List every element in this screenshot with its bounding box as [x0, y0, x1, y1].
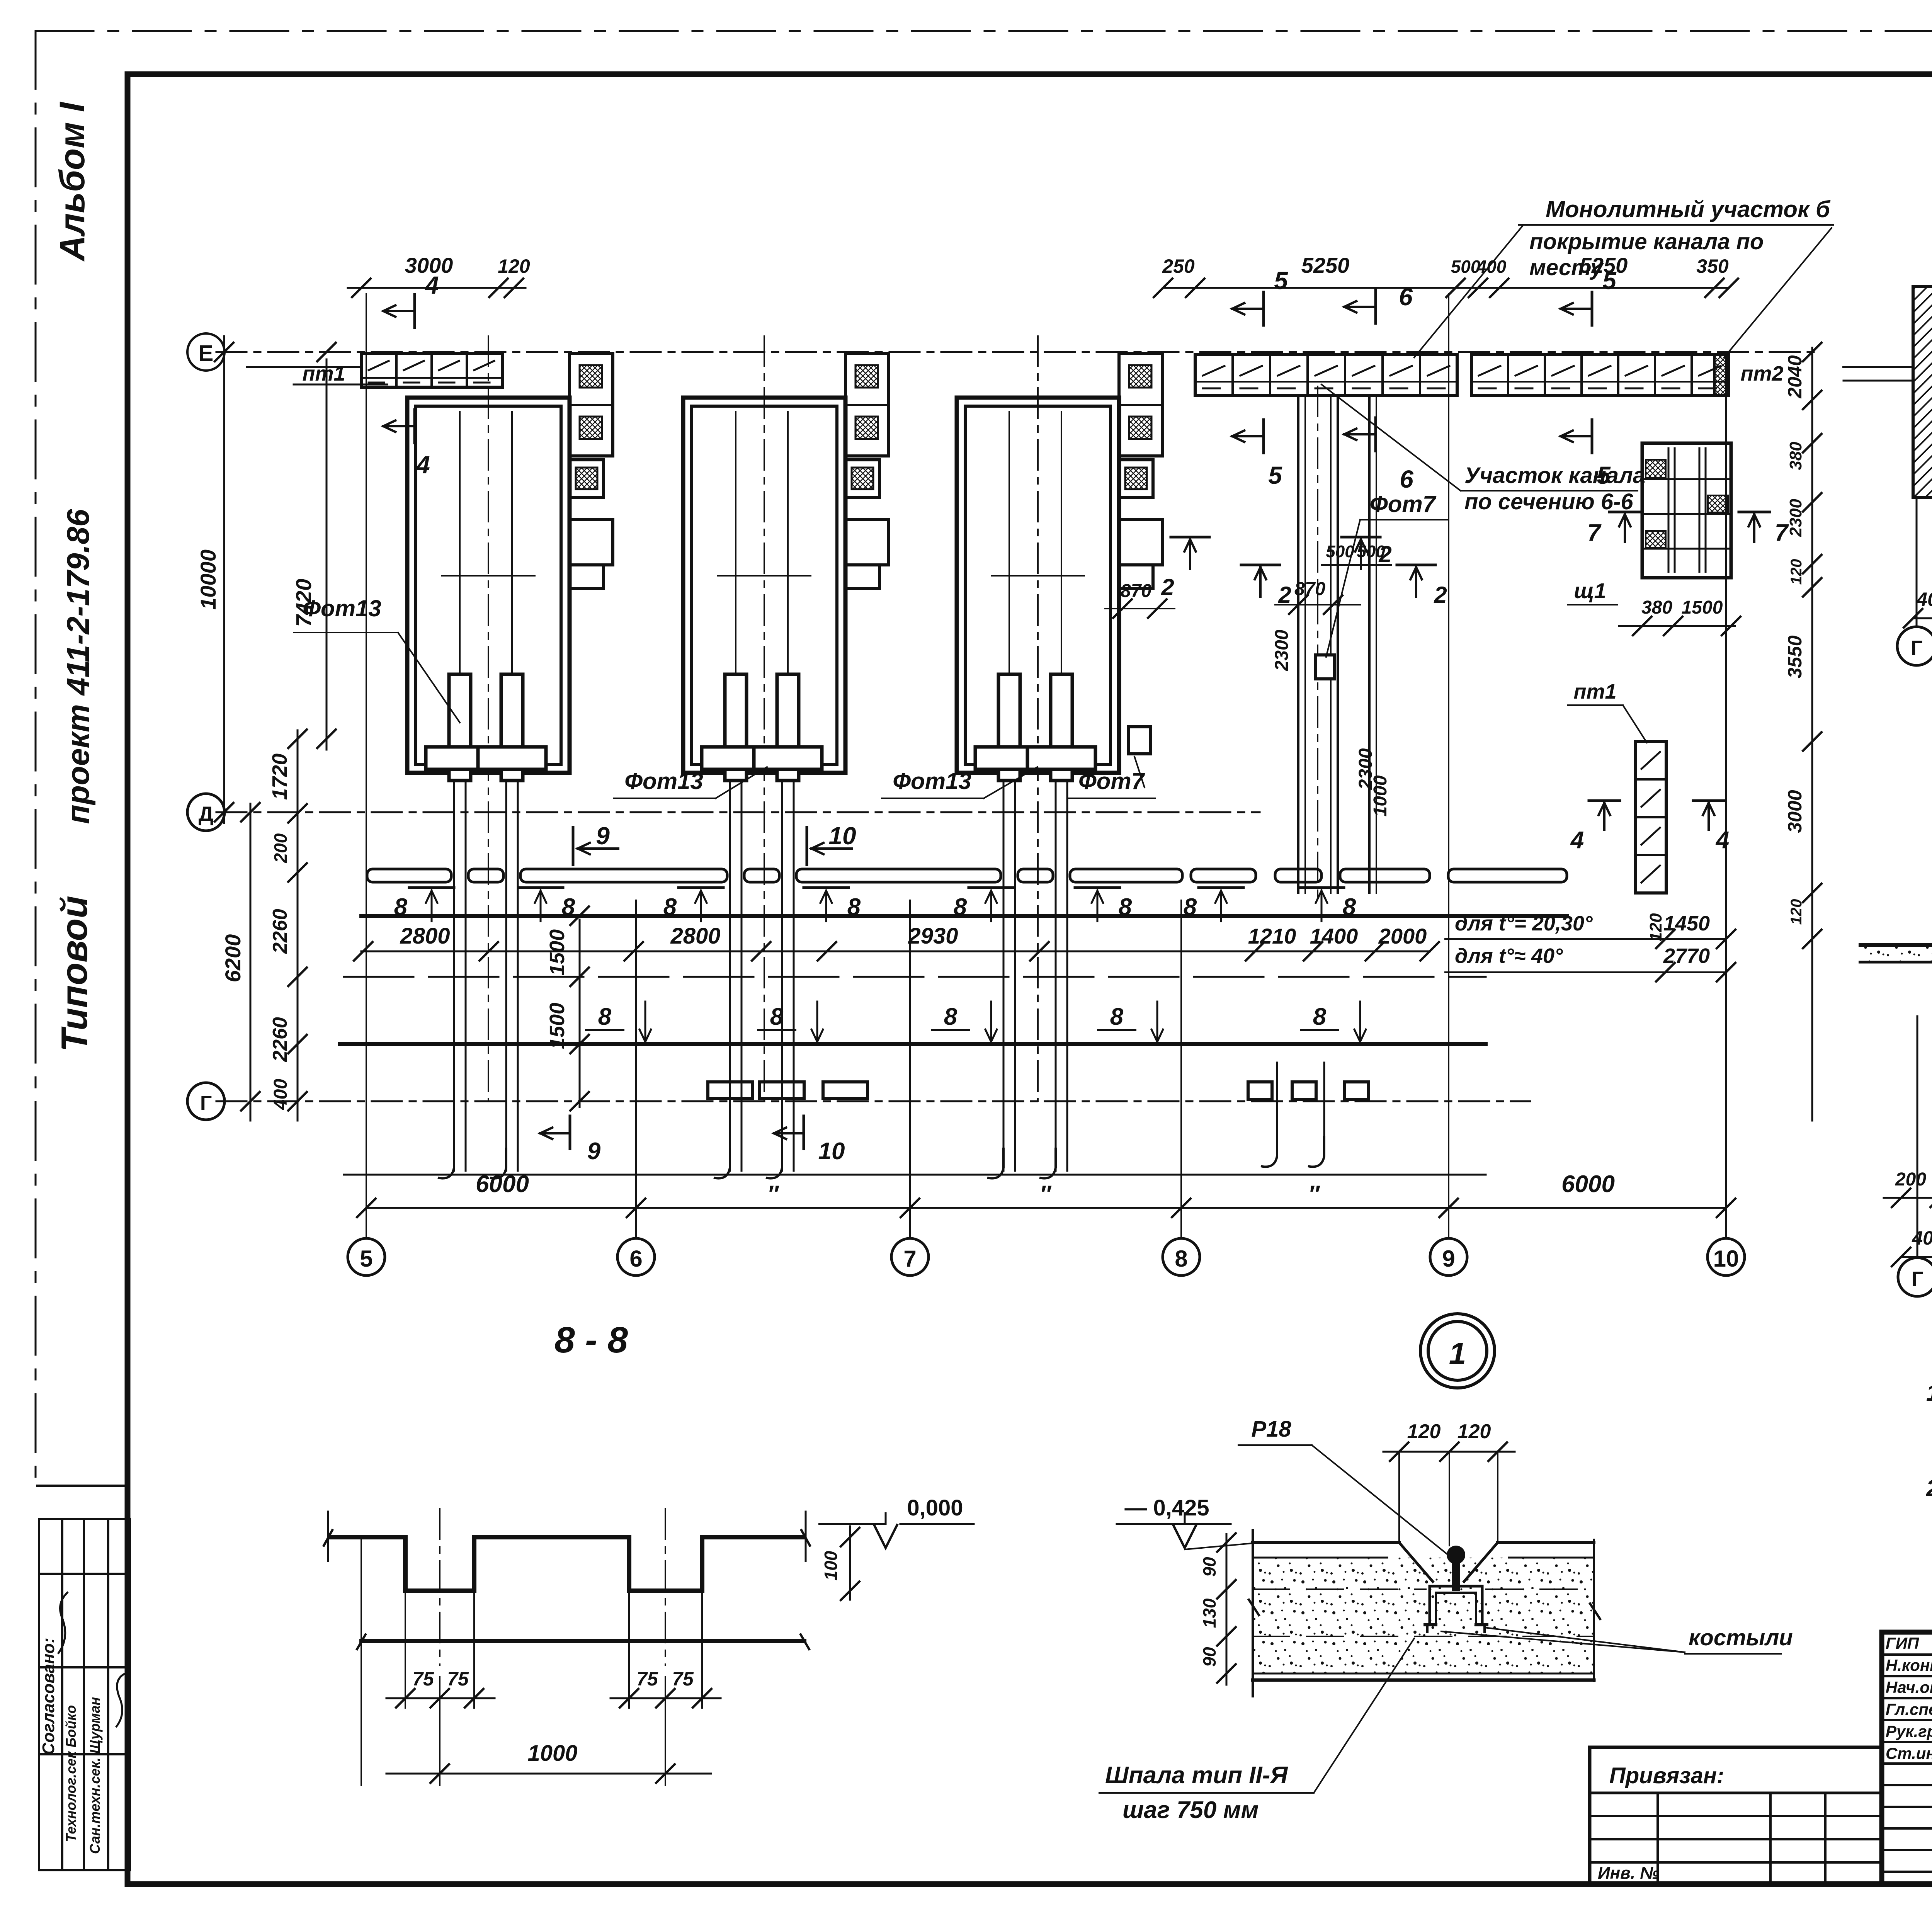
svg-text:8: 8: [1184, 894, 1197, 920]
svg-text:9: 9: [1442, 1246, 1455, 1272]
section mark 4 (top): [413, 294, 416, 328]
8-8 castellated profile: [328, 1537, 806, 1591]
svg-text:870: 870: [1121, 581, 1151, 601]
svg-text:8: 8: [1175, 1246, 1187, 1272]
svg-text:5: 5: [1602, 267, 1617, 294]
svg-text:90: 90: [1199, 1647, 1219, 1667]
svg-text:120: 120: [1458, 1420, 1491, 1443]
svg-text:Технолог.сек Бойко: Технолог.сек Бойко: [63, 1705, 79, 1842]
svg-text:Д: Д: [199, 803, 213, 826]
10-10 tub body: [1859, 945, 1932, 1015]
svg-text:500: 500: [1326, 542, 1354, 561]
axis Г line: [216, 1100, 1530, 1102]
right vertical dim chain: [1811, 348, 1813, 947]
svg-text:8: 8: [1313, 1003, 1327, 1030]
section marks 7: [1609, 511, 1640, 514]
section marks 4 at PT1 stack: [1589, 799, 1620, 802]
svg-text:8: 8: [1343, 894, 1356, 920]
привязан table: [1590, 1746, 1882, 1749]
svg-text:2300: 2300: [1272, 629, 1292, 671]
svg-text:380: 380: [1786, 442, 1805, 470]
drying chamber foundation at x=2476: [957, 398, 1119, 773]
svg-text:Сан.техн.сек. Щурман: Сан.техн.сек. Щурман: [87, 1697, 103, 1854]
svg-text:100: 100: [821, 1551, 841, 1580]
svg-text:8: 8: [1119, 894, 1132, 920]
foundation foot Фот13: [449, 674, 471, 781]
svg-text:для t°≈ 40°: для t°≈ 40°: [1455, 944, 1563, 968]
detail rail anchor Р18: [1447, 1546, 1465, 1564]
svg-text:2. Общие примечания ст: 2. Общие примечания ст. лист кж-14 .: [1926, 1475, 1932, 1501]
svg-text:5: 5: [1268, 461, 1282, 489]
svg-text:щ1: щ1: [1574, 578, 1606, 603]
section marks 5: [1262, 292, 1265, 325]
svg-text:5: 5: [1274, 267, 1288, 294]
axis E line: [216, 351, 1816, 353]
svg-text:1. Настоящий лист расст: 1. Настоящий лист расстатривать совместн…: [1926, 1380, 1932, 1406]
section marks 9/10 upper: [572, 827, 575, 865]
svg-text:Монолитный участок б: Монолитный участок б: [1546, 196, 1831, 222]
lower thin line: [344, 1174, 1486, 1176]
svg-text:9: 9: [596, 822, 610, 850]
svg-text:1500: 1500: [546, 1003, 569, 1049]
svg-text:Рук.гр.: Рук.гр.: [1886, 1722, 1932, 1740]
svg-text:″: ″: [1308, 1181, 1320, 1207]
svg-text:2800: 2800: [670, 923, 720, 949]
svg-text:500: 500: [1357, 542, 1385, 561]
svg-text:10000: 10000: [196, 549, 220, 610]
svg-text:Инв. №: Инв. №: [1598, 1864, 1660, 1883]
svg-text:2260: 2260: [269, 909, 291, 954]
foundation foot Фот13: [998, 674, 1020, 781]
svg-text:120: 120: [1788, 899, 1805, 925]
svg-text:8: 8: [954, 894, 967, 920]
svg-text:3550: 3550: [1784, 635, 1806, 678]
svg-text:200: 200: [270, 833, 291, 863]
svg-text:4: 4: [1570, 827, 1584, 854]
9-9 dims 400/2260/2260/200: [1913, 617, 1932, 619]
svg-text:1500: 1500: [1682, 597, 1723, 618]
svg-text:2: 2: [1278, 582, 1291, 608]
svg-text:10: 10: [828, 822, 856, 850]
svg-text:1500: 1500: [546, 929, 569, 976]
svg-text:Ст.инж.: Ст.инж.: [1886, 1744, 1932, 1762]
svg-text:2800: 2800: [400, 923, 450, 949]
canal wall vertical lines: [1297, 395, 1299, 893]
svg-text:пт1: пт1: [1573, 680, 1616, 703]
svg-text:400: 400: [1912, 1227, 1932, 1249]
8-8 dim 100: [849, 1526, 851, 1600]
svg-text:Фот7: Фот7: [1370, 491, 1437, 517]
svg-text:″: ″: [1040, 1181, 1052, 1207]
foundation foot Фот13: [777, 674, 799, 781]
canal edge continuous line: [361, 914, 1567, 918]
svg-text:7: 7: [1587, 520, 1602, 546]
Фот7 labels and anchors: [1128, 727, 1151, 754]
svg-text:350: 350: [1696, 255, 1729, 277]
9-9 wall hatched: [1913, 287, 1932, 498]
svg-text:250: 250: [1162, 255, 1195, 277]
top dimension row: [348, 287, 526, 289]
section marks 6: [1374, 290, 1377, 323]
svg-text:Г: Г: [1911, 636, 1923, 660]
9-9 axis Г circle: [1916, 498, 1918, 627]
svg-text:0,000: 0,000: [907, 1495, 963, 1520]
detail bubble 1: [1420, 1314, 1495, 1388]
vertical dim 1500/1500: [579, 920, 581, 1107]
10-10 dims 200/200/2260/2260/200: [1884, 1197, 1932, 1199]
strip row (middle): [1195, 354, 1457, 395]
axis Г circle: [187, 1083, 224, 1120]
svg-text:1: 1: [1449, 1336, 1466, 1371]
title block outer: [1882, 1632, 1932, 1884]
pads below lower canal line: [708, 1082, 752, 1099]
svg-text:6: 6: [629, 1246, 642, 1272]
shield block щ1: [1642, 443, 1731, 578]
svg-text:4: 4: [415, 451, 430, 479]
svg-text:1000: 1000: [1370, 775, 1391, 816]
svg-text:2: 2: [1434, 582, 1447, 608]
svg-text:Г: Г: [1912, 1267, 1923, 1291]
svg-text:— 0,425: — 0,425: [1124, 1495, 1209, 1520]
8-8 dim 1000: [386, 1773, 711, 1775]
svg-text:Типовой: Типовой: [54, 896, 95, 1052]
svg-text:8: 8: [394, 894, 408, 920]
hatched wall plates right of chamber: [1119, 354, 1162, 456]
dim 380/1500 under щ1: [1619, 625, 1735, 627]
svg-text:5: 5: [1597, 461, 1611, 489]
svg-text:5250: 5250: [1301, 253, 1350, 277]
svg-text:Гл.спец.: Гл.спец.: [1886, 1700, 1932, 1718]
strip PT1 plan (left): [361, 354, 502, 387]
signature table: [1882, 1653, 1932, 1656]
svg-text:для t°= 20,30°: для t°= 20,30°: [1455, 912, 1593, 935]
svg-text:8 - 8: 8 - 8: [554, 1320, 628, 1361]
svg-text:120: 120: [498, 255, 530, 277]
foundation foot Фот13: [1051, 674, 1072, 781]
svg-text:3000: 3000: [1784, 790, 1806, 833]
precast plates row (plan): [367, 869, 451, 882]
svg-text:1210: 1210: [1248, 924, 1296, 948]
svg-text:200: 200: [1895, 1169, 1926, 1190]
outer thin border: [36, 30, 1932, 32]
bottom-left approval table: [37, 1485, 128, 1487]
bottom axis dimension line 6000: [366, 1207, 1726, 1209]
svg-text:2040: 2040: [1784, 355, 1806, 398]
svg-text:1400: 1400: [1310, 924, 1358, 948]
svg-text:Нач.отд: Нач.отд: [1886, 1678, 1932, 1696]
8-8 dims 75 75: [386, 1697, 495, 1699]
svg-text:5: 5: [360, 1246, 372, 1272]
svg-text:4: 4: [1715, 827, 1729, 854]
svg-text:пт1: пт1: [302, 362, 345, 385]
svg-text:6000: 6000: [1561, 1171, 1615, 1197]
svg-text:2000: 2000: [1378, 924, 1427, 948]
10-10 dims 400/4520: [1901, 1256, 1932, 1258]
svg-text:10: 10: [1713, 1246, 1739, 1272]
svg-text:400: 400: [270, 1079, 291, 1110]
axis E circle: [187, 333, 224, 371]
drying chamber foundation at x=1054: [407, 398, 570, 773]
detail left dims 90/130/90: [1226, 1534, 1228, 1685]
svg-text:400: 400: [1916, 588, 1932, 610]
axis Д line: [216, 811, 1260, 813]
svg-text:500: 500: [1451, 257, 1481, 277]
8-8 verticals to dims: [439, 1509, 440, 1665]
svg-text:2: 2: [1161, 574, 1174, 600]
section marks 2: [1171, 536, 1209, 539]
axis circles 5..10: [348, 1238, 385, 1276]
svg-text:120: 120: [1407, 1420, 1441, 1443]
svg-text:Привязан:: Привязан:: [1609, 1763, 1724, 1788]
lower canal edge line: [340, 1042, 1486, 1046]
svg-text:шаг 750 мм: шаг 750 мм: [1122, 1797, 1259, 1823]
svg-text:10: 10: [818, 1138, 845, 1165]
drying chamber foundation at x=1768: [683, 398, 845, 773]
detail dash lines: [1253, 1588, 1426, 1590]
svg-text:75: 75: [636, 1668, 658, 1690]
svg-text:2300: 2300: [1786, 499, 1805, 537]
svg-text:8: 8: [847, 894, 861, 920]
vertical grid axes 5..10: [366, 294, 367, 1238]
axis Д circle: [187, 794, 224, 831]
svg-text:пт2: пт2: [1740, 362, 1783, 385]
strip row (right) with monolith end: [1471, 354, 1729, 395]
svg-text:6: 6: [1399, 283, 1413, 311]
svg-text:120: 120: [1646, 913, 1665, 942]
svg-text:Фот13: Фот13: [893, 768, 971, 794]
svg-text:380: 380: [1641, 597, 1672, 618]
svg-text:проект 411-2-179.86: проект 411-2-179.86: [61, 509, 96, 824]
svg-text:75: 75: [412, 1668, 434, 1690]
svg-text:Шпала тип II-Я: Шпала тип II-Я: [1105, 1762, 1288, 1789]
svg-text:Е: Е: [199, 341, 214, 366]
left vertical dimension chains: [223, 336, 225, 823]
svg-text:6: 6: [1400, 465, 1413, 493]
svg-text:9: 9: [587, 1138, 601, 1165]
section mark 4 (below strip): [413, 410, 416, 443]
section marks 9/10 lower: [569, 1116, 571, 1149]
svg-text:Фот13: Фот13: [624, 768, 703, 794]
10-10 axis Г circle: [1917, 1016, 1918, 1258]
svg-text:Согласовано:: Согласовано:: [39, 1638, 58, 1755]
svg-text:″: ″: [767, 1181, 779, 1207]
svg-text:6200: 6200: [221, 934, 245, 983]
svg-text:1720: 1720: [268, 753, 291, 800]
svg-text:75: 75: [672, 1668, 694, 1690]
svg-text:8: 8: [944, 1003, 957, 1030]
svg-text:Р18: Р18: [1251, 1417, 1291, 1442]
detail dims 120 120: [1383, 1451, 1515, 1453]
svg-text:8: 8: [663, 894, 677, 920]
svg-text:1450: 1450: [1663, 912, 1710, 935]
svg-text:90: 90: [1199, 1557, 1219, 1577]
foundation foot Фот13: [725, 674, 747, 781]
svg-text:по сечению 6-6: по сечению 6-6: [1464, 489, 1633, 514]
PT1 plate stack (plan right): [1635, 742, 1666, 893]
hooked dowels right: [1261, 1136, 1277, 1167]
foundation foot Фот13: [501, 674, 523, 781]
detail slab: [1253, 1558, 1594, 1673]
svg-text:870: 870: [1294, 579, 1325, 599]
svg-text:4: 4: [424, 271, 439, 299]
detail channel box with spikes: [1430, 1585, 1482, 1588]
svg-text:8: 8: [770, 1003, 784, 1030]
dimension row 2800/2800/2930/1210/1400/2000: [361, 951, 1430, 952]
svg-text:2770: 2770: [1663, 944, 1710, 968]
svg-text:2930: 2930: [908, 923, 958, 949]
svg-text:75: 75: [447, 1668, 469, 1690]
hatched wall plates right of chamber: [845, 354, 889, 456]
svg-text:8: 8: [1110, 1003, 1124, 1030]
canal upper edge dashed line: [344, 976, 1486, 978]
svg-text:Фот13: Фот13: [303, 595, 381, 621]
svg-text:костыли: костыли: [1689, 1625, 1793, 1650]
svg-text:130: 130: [1199, 1598, 1219, 1628]
svg-text:400: 400: [1476, 257, 1507, 277]
svg-text:8: 8: [562, 894, 575, 920]
svg-text:ГИП: ГИП: [1886, 1634, 1919, 1652]
svg-text:7: 7: [903, 1246, 916, 1272]
hatched wall plates right of chamber: [570, 354, 613, 456]
svg-text:Н.контр: Н.контр: [1886, 1656, 1932, 1674]
svg-text:Альбом I: Альбом I: [53, 101, 92, 262]
svg-text:Фот7: Фот7: [1078, 768, 1145, 794]
svg-text:1000: 1000: [527, 1741, 577, 1766]
svg-text:2260: 2260: [269, 1017, 291, 1062]
svg-text:Г: Г: [200, 1092, 212, 1115]
svg-text:Участок канала: Участок канала: [1464, 463, 1645, 488]
svg-text:8: 8: [598, 1003, 612, 1030]
svg-text:покрытие канала по: покрытие канала по: [1529, 229, 1764, 254]
svg-text:120: 120: [1788, 559, 1805, 585]
